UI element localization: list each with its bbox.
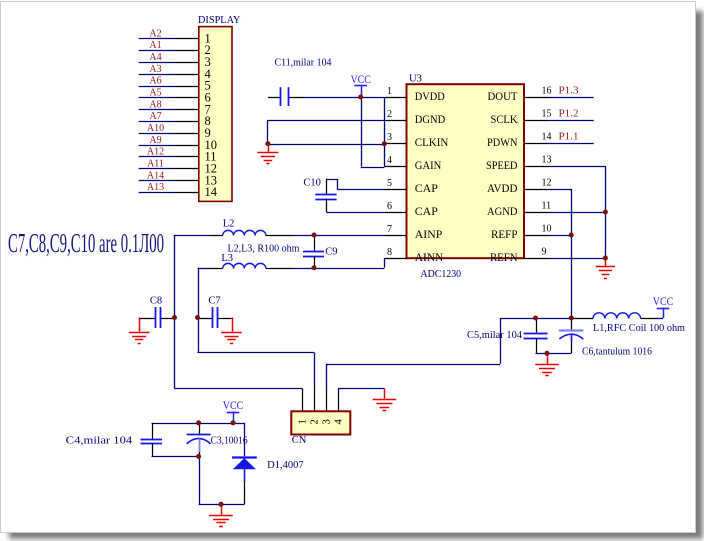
- svg-text:P1.2: P1.2: [559, 109, 579, 120]
- svg-text:2: 2: [387, 109, 392, 120]
- svg-text:11: 11: [542, 201, 552, 212]
- svg-text:4: 4: [332, 419, 344, 425]
- svg-text:A2: A2: [149, 28, 161, 39]
- svg-text:12: 12: [542, 178, 552, 189]
- svg-text:5: 5: [387, 178, 392, 189]
- svg-text:3: 3: [320, 419, 332, 425]
- svg-text:DGND: DGND: [415, 112, 446, 126]
- svg-text:4: 4: [387, 155, 392, 166]
- svg-text:3: 3: [387, 132, 392, 143]
- svg-text:GAIN: GAIN: [415, 158, 442, 172]
- svg-text:VCC: VCC: [653, 296, 674, 308]
- svg-text:C9: C9: [325, 246, 337, 257]
- svg-text:L2,L3, R100 ohm: L2,L3, R100 ohm: [228, 244, 300, 255]
- svg-text:SPEED: SPEED: [486, 158, 518, 172]
- svg-text:16: 16: [542, 86, 552, 97]
- svg-text:CAP: CAP: [415, 204, 438, 218]
- svg-text:VCC: VCC: [350, 74, 371, 86]
- svg-text:7: 7: [387, 224, 392, 235]
- svg-text:A4: A4: [149, 52, 161, 63]
- svg-text:A6: A6: [149, 76, 161, 87]
- svg-text:13: 13: [542, 155, 552, 166]
- svg-text:CLKIN: CLKIN: [415, 135, 449, 149]
- svg-text:1: 1: [297, 419, 309, 425]
- svg-text:A9: A9: [149, 135, 161, 146]
- svg-text:C7: C7: [208, 295, 220, 306]
- svg-text:U3: U3: [409, 74, 422, 85]
- svg-text:A10: A10: [147, 123, 164, 134]
- svg-text:A7: A7: [149, 111, 161, 122]
- svg-text:CN: CN: [292, 435, 307, 446]
- svg-text:A13: A13: [147, 182, 164, 193]
- svg-text:8: 8: [387, 247, 392, 258]
- svg-text:14: 14: [205, 185, 218, 199]
- svg-text:DVDD: DVDD: [415, 89, 445, 103]
- svg-text:SCLK: SCLK: [491, 112, 518, 126]
- svg-text:6: 6: [387, 201, 392, 212]
- svg-text:REFP: REFP: [491, 227, 518, 241]
- svg-text:A1: A1: [149, 40, 161, 51]
- svg-text:9: 9: [542, 247, 547, 258]
- svg-text:C11,milar 104: C11,milar 104: [275, 58, 333, 69]
- svg-text:CAP: CAP: [415, 181, 438, 195]
- svg-text:L1,RFC Coil 100 ohm: L1,RFC Coil 100 ohm: [593, 323, 685, 334]
- svg-text:2: 2: [308, 419, 320, 425]
- svg-text:VCC: VCC: [223, 400, 244, 412]
- svg-text:ADC1230: ADC1230: [421, 269, 462, 280]
- svg-text:C3,10016: C3,10016: [211, 436, 248, 447]
- svg-text:C8: C8: [150, 295, 162, 306]
- svg-text:A11: A11: [147, 159, 164, 170]
- svg-text:REFN: REFN: [490, 250, 518, 264]
- svg-text:AVDD: AVDD: [487, 181, 518, 195]
- svg-text:A3: A3: [149, 64, 161, 75]
- svg-text:AGND: AGND: [487, 204, 518, 218]
- svg-text:10: 10: [542, 224, 552, 235]
- svg-text:15: 15: [542, 109, 552, 120]
- svg-text:A5: A5: [149, 88, 161, 99]
- svg-text:L2: L2: [223, 219, 235, 230]
- svg-text:A12: A12: [147, 147, 164, 158]
- svg-text:C7,C8,C9,C10 are 0.1Л00: C7,C8,C9,C10 are 0.1Л00: [8, 228, 164, 258]
- svg-text:C10: C10: [303, 177, 321, 188]
- svg-text:P1.3: P1.3: [559, 86, 579, 97]
- svg-text:A14: A14: [147, 170, 164, 181]
- svg-text:A8: A8: [149, 99, 161, 110]
- svg-text:C6,tantulum 1016: C6,tantulum 1016: [582, 347, 652, 358]
- svg-text:DOUT: DOUT: [488, 89, 519, 103]
- svg-text:PDWN: PDWN: [487, 135, 518, 149]
- svg-text:C5,milar 104: C5,milar 104: [467, 330, 523, 341]
- svg-text:AINP: AINP: [415, 227, 443, 241]
- svg-text:DISPLAY: DISPLAY: [198, 14, 241, 26]
- svg-text:P1.1: P1.1: [559, 132, 579, 143]
- svg-text:D1,4007: D1,4007: [267, 460, 304, 471]
- svg-text:1: 1: [387, 86, 392, 97]
- svg-text:AINN: AINN: [415, 250, 444, 264]
- svg-text:C4,milar 104: C4,milar 104: [66, 436, 133, 447]
- svg-text:14: 14: [542, 132, 552, 143]
